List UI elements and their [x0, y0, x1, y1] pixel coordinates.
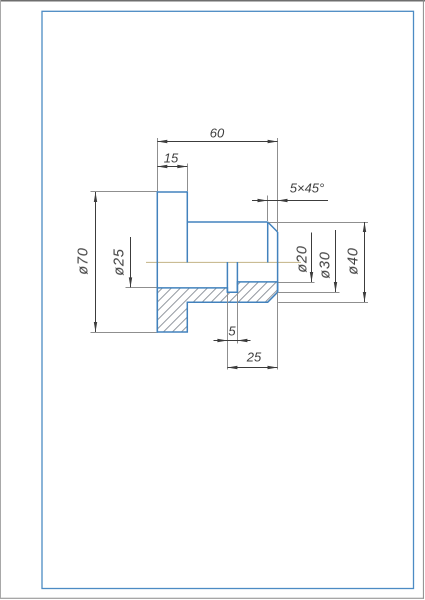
ext line groove right bottom: [237, 293, 239, 344]
dim text 60: [209, 126, 223, 139]
dim text dia40: [348, 247, 361, 274]
dimension 25: [227, 366, 277, 369]
dim text dia70: [77, 247, 90, 274]
ext line flange top left: [91, 191, 157, 193]
ext line flange bottom left: [91, 332, 157, 334]
dim text dia20: [296, 245, 309, 272]
groove right wall: [236, 262, 238, 292]
part outline: flange top edge: [157, 191, 188, 193]
ext line groove left bottom: [227, 293, 229, 370]
dimension 5x45 chamfer: [252, 199, 328, 202]
dimension dia 25: [129, 237, 132, 287]
dimension dia 40: [363, 222, 366, 302]
dim text dia30: [319, 251, 332, 278]
dimension dia 70: [94, 192, 97, 332]
dimension dia 30: [334, 230, 337, 292]
dim text 5: [229, 325, 236, 338]
extension lines: [91, 138, 369, 370]
ext line dia 30: [278, 292, 339, 294]
part outline: body top edge: [187, 221, 267, 223]
ext line flange right top: [187, 164, 189, 192]
dim text dia25: [114, 248, 127, 275]
part outline: right face: [277, 232, 279, 292]
dimension 5 groove width: [214, 339, 251, 342]
dim text 5x45: [289, 182, 323, 195]
axis centerline: [146, 261, 301, 263]
ext line chamfer start: [267, 196, 269, 222]
dimension 15: [157, 165, 187, 168]
ext line body bottom right: [278, 302, 368, 304]
ext line body top right: [269, 222, 369, 224]
part outline: left face: [156, 191, 158, 332]
ext line right face bottom: [277, 293, 279, 370]
part outline: flange right face: [186, 191, 188, 262]
dim text 25: [247, 351, 261, 364]
dimension 60: [157, 140, 277, 143]
ext line bore 20: [278, 282, 314, 284]
part outline: chamfer 5x45 top: [268, 222, 278, 232]
groove left wall: [226, 262, 228, 292]
dim text 15: [164, 152, 178, 165]
part outline: chamfer circle line: [267, 222, 269, 263]
ext line left face top: [157, 138, 159, 191]
ext line bore 25: [126, 287, 157, 289]
dimension dia 20: [310, 233, 313, 283]
ext line right face top: [277, 138, 279, 231]
section hatch (lower half section): [157, 282, 277, 332]
